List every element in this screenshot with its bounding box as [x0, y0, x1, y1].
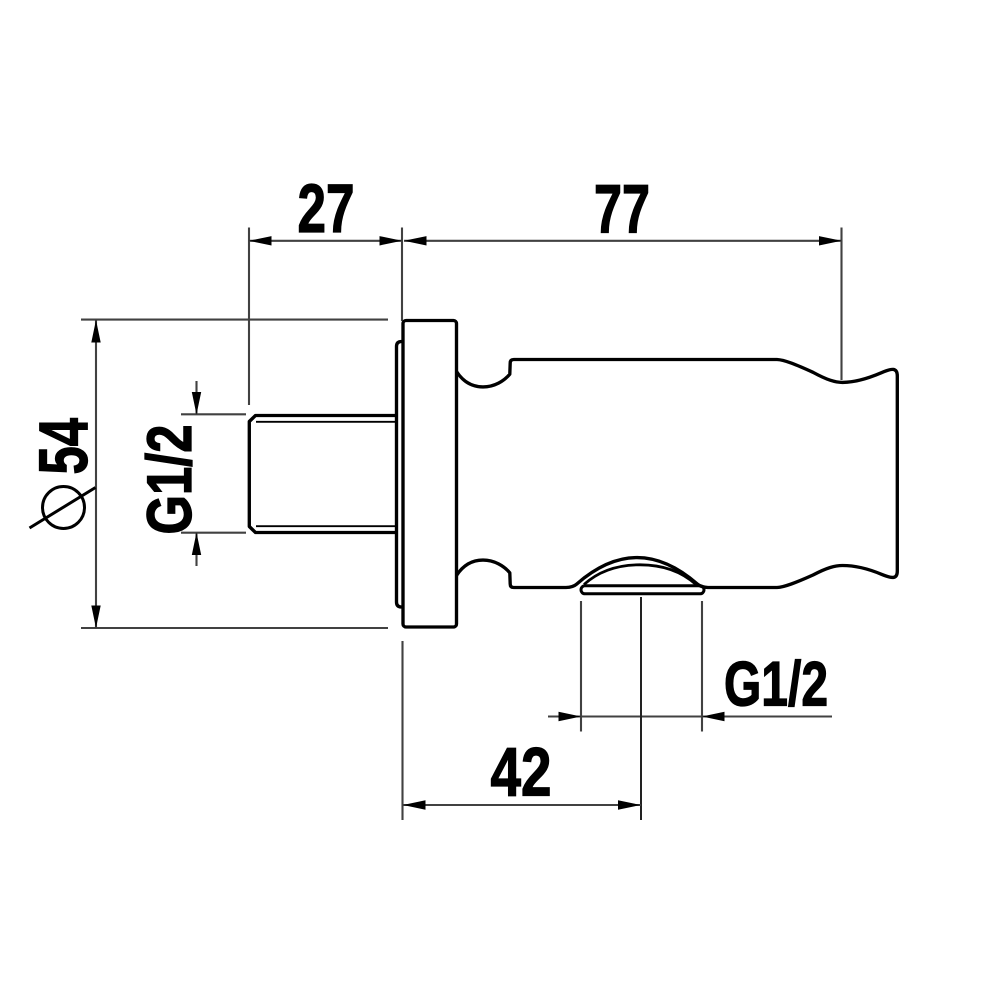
- arrow Ø54 top: [91, 320, 100, 343]
- extension line at wall plane (x=402): [401, 228, 403, 322]
- extension line below flange (x=402.5): [401, 641, 403, 820]
- Ø54 dimension line vertical: [95, 320, 97, 628]
- G1/2 left: bottom extension line: [181, 532, 246, 534]
- arrow G1/2 left bottom: [192, 533, 201, 556]
- dimension line 77: [404, 240, 842, 242]
- dimension line G1/2 bottom: [548, 715, 832, 717]
- outlet inner arc: [584, 565, 696, 585]
- arrow 77 right: [819, 236, 842, 245]
- arrow 27 right: [380, 236, 403, 245]
- G1/2 left: top extension line: [181, 413, 246, 415]
- dimension line 27: [249, 240, 402, 242]
- diameter symbol: [30, 487, 96, 529]
- arrow 42 right: [618, 800, 641, 809]
- extension line left of 27 dim (x=249): [248, 228, 250, 406]
- dimension line 42: [403, 804, 642, 806]
- threaded inlet pipe G1/2: [249, 416, 398, 533]
- outlet lens bar: [581, 586, 704, 594]
- arrow 77 left: [404, 236, 427, 245]
- outlet leader left (x=581): [580, 601, 582, 732]
- extension line at 77 end (x=841.5): [840, 228, 842, 381]
- arrow G1/2 left top: [192, 392, 201, 415]
- wall back plate: [397, 342, 405, 608]
- svg-text:54: 54: [25, 418, 102, 475]
- thread root line bottom: [256, 525, 398, 527]
- G1/2 left: lower arrow leader: [195, 533, 197, 567]
- G1/2 left: upper arrow leader: [195, 381, 197, 415]
- arrow Ø54 bottom: [91, 606, 100, 629]
- main body outline: [457, 360, 898, 588]
- svg-text:27: 27: [298, 170, 355, 247]
- svg-text:G1/2: G1/2: [135, 425, 205, 535]
- svg-text:42: 42: [491, 734, 552, 811]
- Ø54 top extension line: [81, 319, 388, 321]
- svg-text:77: 77: [594, 170, 650, 247]
- outlet leader right (x=702): [701, 601, 703, 732]
- part outlines: [249, 321, 897, 628]
- outlet axis line (x=641): [640, 597, 642, 820]
- arrow G1/2 bottom-dim right: [702, 712, 725, 721]
- thread root line top: [256, 421, 398, 423]
- flange (escutcheon): [403, 321, 457, 628]
- svg-text:G1/2: G1/2: [724, 650, 828, 720]
- arrow 27 left: [249, 236, 272, 245]
- arrow 42 left: [403, 800, 426, 809]
- arrow G1/2 bottom-dim left: [559, 712, 582, 721]
- arrowheads: [91, 236, 841, 810]
- Ø54 bottom extension line: [81, 627, 388, 629]
- thin extension/dimension line style groups: [81, 228, 842, 821]
